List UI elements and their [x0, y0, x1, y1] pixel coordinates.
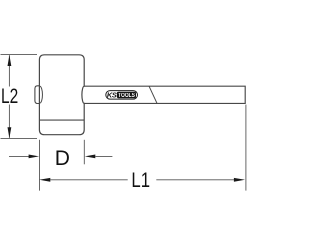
D left arrow tail: [9, 155, 30, 157]
mallet handle: [84, 86, 245, 103]
L2 dimension line upper segment: [8, 55, 10, 86]
L1 dimension line right segment: [156, 179, 234, 181]
D left extension line: [39, 140, 41, 191]
svg-text:L2: L2: [1, 85, 18, 108]
L1 right extension line: [245, 105, 247, 191]
D right arrowhead: [85, 155, 96, 159]
label D: [55, 147, 70, 170]
L1 left arrowhead: [39, 178, 50, 182]
handle grip boundary diagonal line: [149, 86, 157, 103]
svg-text:D: D: [55, 147, 70, 170]
L2 down arrowhead: [8, 127, 12, 138]
head side knob: [35, 86, 40, 104]
L2 dimension line lower segment: [8, 105, 10, 138]
svg-text:KS: KS: [107, 91, 117, 100]
label L1: [131, 169, 150, 192]
head face joint line: [39, 119, 84, 121]
D left arrowhead: [29, 155, 39, 159]
svg-text:TOOLS: TOOLS: [118, 93, 135, 99]
svg-text:L1: L1: [131, 169, 150, 192]
L1 dimension line left segment: [50, 179, 127, 181]
knob face arc: [40, 86, 43, 103]
mallet head: [39, 55, 84, 135]
KS Tools logo: [106, 91, 138, 100]
L2 top extension line: [1, 54, 38, 56]
L1 right arrowhead: [234, 178, 245, 182]
L2 up arrowhead: [8, 55, 12, 66]
D right extension line: [83, 140, 85, 165]
label L2: [1, 85, 18, 108]
L2 bottom extension line: [1, 138, 38, 140]
D right arrow tail: [95, 155, 112, 157]
